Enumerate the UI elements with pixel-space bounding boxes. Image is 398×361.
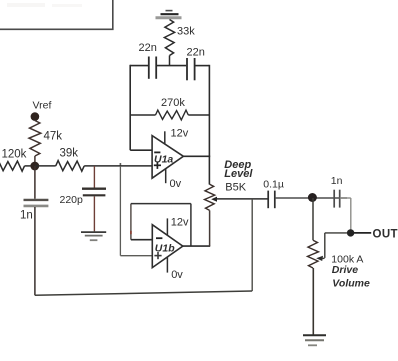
capacitor 0.1u	[268, 191, 275, 209]
box (top-left partial rectangle)	[0, 0, 113, 29]
node junction dot (input node)	[30, 162, 39, 171]
wire 270k right lead	[188, 114, 209, 116]
node tick (reddish mark on feedback wire)	[130, 231, 132, 234]
wire branch down to U1b non-inverting input	[120, 166, 152, 256]
resistor 33k	[164, 20, 174, 56]
wire U1a output to right vertical	[183, 155, 210, 157]
svg-text:B5K: B5K	[225, 182, 246, 194]
svg-text:220p: 220p	[60, 194, 84, 206]
wire 33k bottom to cap junction	[169, 56, 171, 67]
wire bottom feedback	[35, 291, 252, 295]
wire to OUT terminal	[351, 232, 372, 234]
wire 47k to input node	[34, 156, 36, 166]
wire right edge of feedback box down to pot	[208, 65, 210, 185]
svg-text:OUT: OUT	[373, 228, 398, 240]
svg-text:120k: 120k	[2, 149, 27, 161]
wire U1b feedback left vertical	[130, 204, 132, 240]
U1a V- pin tick	[165, 168, 167, 183]
U1b minus sign	[156, 237, 162, 239]
wire U1a inverting input	[130, 149, 152, 151]
wire pot bottom to U1b output	[209, 210, 211, 246]
wire wiper junction down	[251, 199, 253, 291]
U1b V- pin tick	[166, 257, 168, 273]
wire C 1n down to bottom feedback wire	[34, 207, 36, 295]
resistor 39k	[56, 161, 84, 172]
potentiometer 100k A element	[308, 240, 319, 268]
svg-text:0.1µ: 0.1µ	[263, 178, 284, 190]
wire U1b inverting input	[131, 239, 152, 241]
wire 0.1u cap to output node	[275, 197, 347, 199]
svg-text:12v: 12v	[171, 217, 189, 229]
op-amp U1a triangle	[152, 136, 183, 179]
B5K wiper arrow	[211, 197, 217, 202]
wire left edge of feedback box	[129, 65, 131, 150]
op-amp U1b triangle	[152, 225, 183, 268]
svg-text:22n: 22n	[139, 42, 157, 54]
svg-text:Level: Level	[224, 168, 253, 180]
svg-text:Drive: Drive	[332, 264, 358, 276]
node Vref terminal dot	[31, 112, 40, 121]
svg-text:33k: 33k	[177, 26, 195, 38]
svg-text:47k: 47k	[44, 131, 63, 143]
wire 39k to U1a plus input	[84, 165, 152, 167]
resistor 47k	[29, 121, 41, 157]
wire wiper to 0.1u cap	[216, 198, 268, 200]
wire 270k left lead	[130, 114, 155, 116]
capacitor 22n (right)	[187, 58, 195, 80]
svg-text:0v: 0v	[170, 178, 182, 190]
svg-text:270k: 270k	[161, 97, 185, 109]
U1b V+ pin tick	[166, 218, 168, 235]
svg-text:Volume: Volume	[332, 277, 370, 289]
wire U1b output	[183, 245, 210, 247]
ground (under 220p)	[81, 232, 106, 240]
potentiometer B5K element	[205, 184, 215, 210]
U1b plus sign	[154, 252, 161, 259]
U1a plus sign	[154, 162, 161, 169]
resistor 120k	[0, 161, 25, 172]
wire top edge left (box left to C 22n left)	[130, 65, 148, 67]
resistor 270k	[156, 110, 189, 120]
U1a V+ pin tick	[164, 131, 166, 144]
U1a minus sign	[154, 151, 160, 153]
svg-text:Vref: Vref	[33, 99, 52, 111]
node output junction dot	[308, 193, 317, 202]
wire U1b feedback top	[131, 203, 191, 205]
svg-text:39k: 39k	[60, 148, 79, 160]
wire output node down to 100k pot	[312, 198, 314, 240]
node OUT junction dot	[347, 229, 354, 236]
capacitor 1n (output)	[334, 190, 340, 208]
capacitor 22n (left)	[149, 57, 156, 79]
svg-text:1n: 1n	[331, 175, 343, 187]
wire node to 39k	[35, 165, 56, 167]
wire wiper up to OUT node	[322, 233, 348, 259]
wire 220p to ground	[93, 196, 95, 231]
capacitor 220p	[82, 189, 106, 196]
node tick at U1b branch junction	[119, 163, 121, 167]
100k wiper arrow	[316, 256, 323, 261]
wire U1b feedback right vertical	[190, 204, 192, 247]
ground (output)	[303, 335, 326, 345]
power rail symbol (supply terminal above 33k)	[156, 11, 182, 18]
wire 100k pot to ground	[312, 268, 314, 335]
wire 120k to node	[25, 165, 36, 167]
svg-text:22n: 22n	[187, 46, 205, 58]
wire between 22n caps	[156, 65, 186, 67]
svg-text:0v: 0v	[171, 269, 183, 281]
wire 220p branch upper	[93, 166, 95, 188]
svg-text:12v: 12v	[171, 127, 189, 139]
wire 1n to out corner	[340, 198, 351, 233]
wire node down to C 1n	[34, 166, 36, 199]
capacitor 1n (input)	[24, 200, 49, 206]
svg-text:1n: 1n	[20, 210, 33, 222]
wire top edge right (C 22n right to box right)	[195, 65, 210, 67]
